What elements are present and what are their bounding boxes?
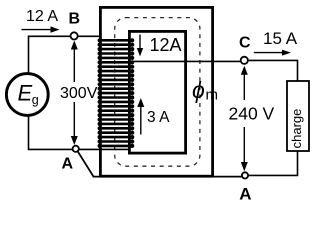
voltage annotation 300V upper arrow	[73, 46, 75, 82]
svg-text:15 A: 15 A	[263, 29, 298, 48]
svg-text:E: E	[18, 81, 33, 106]
node A right	[242, 172, 248, 178]
wire tap to node C	[133, 60, 241, 62]
voltage annotation 240 V lower arrow	[243, 127, 245, 163]
wire generator bottom to node A	[29, 115, 73, 149]
voltage annotation 300V lower arrow	[73, 102, 75, 139]
svg-text:g: g	[32, 93, 39, 107]
transformer core outer rectangle	[100, 7, 212, 176]
current arrow 12 A	[22, 29, 54, 31]
svg-text:240 V: 240 V	[229, 104, 275, 124]
svg-text:m: m	[206, 87, 219, 104]
wire node A to winding bottom	[79, 148, 131, 150]
wire from node B to winding top	[70, 35, 101, 37]
wire node A diagonal to bottom run	[78, 151, 242, 176]
charge load box	[287, 81, 309, 151]
svg-text:C: C	[239, 35, 251, 52]
svg-text:B: B	[69, 11, 81, 28]
svg-text:12A: 12A	[150, 35, 182, 55]
wire left top from generator to node B	[29, 36, 72, 74]
generator Eg circle	[6, 74, 48, 116]
node A left	[73, 146, 79, 152]
svg-text:A: A	[62, 156, 74, 173]
node C	[241, 57, 248, 64]
svg-text:A: A	[239, 185, 251, 203]
svg-text:charge: charge	[289, 109, 304, 149]
current arrow 15 A	[254, 52, 285, 54]
svg-text:3 A: 3 A	[147, 109, 170, 126]
wire bottom node A to charge	[248, 152, 298, 176]
current arrow 3 A	[140, 105, 142, 135]
voltage annotation 240 V upper arrow	[243, 72, 245, 100]
svg-text:12 A: 12 A	[26, 8, 58, 25]
node B	[71, 32, 78, 39]
svg-text:300V: 300V	[60, 85, 98, 102]
core window inner rectangle	[129, 31, 185, 153]
svg-text:ϕ: ϕ	[192, 77, 205, 103]
flux path dashed loop	[115, 18, 200, 167]
wire node C to charge	[248, 60, 298, 81]
autotransformer winding turns	[98, 38, 135, 42]
current arrow 12A in window	[139, 35, 141, 51]
